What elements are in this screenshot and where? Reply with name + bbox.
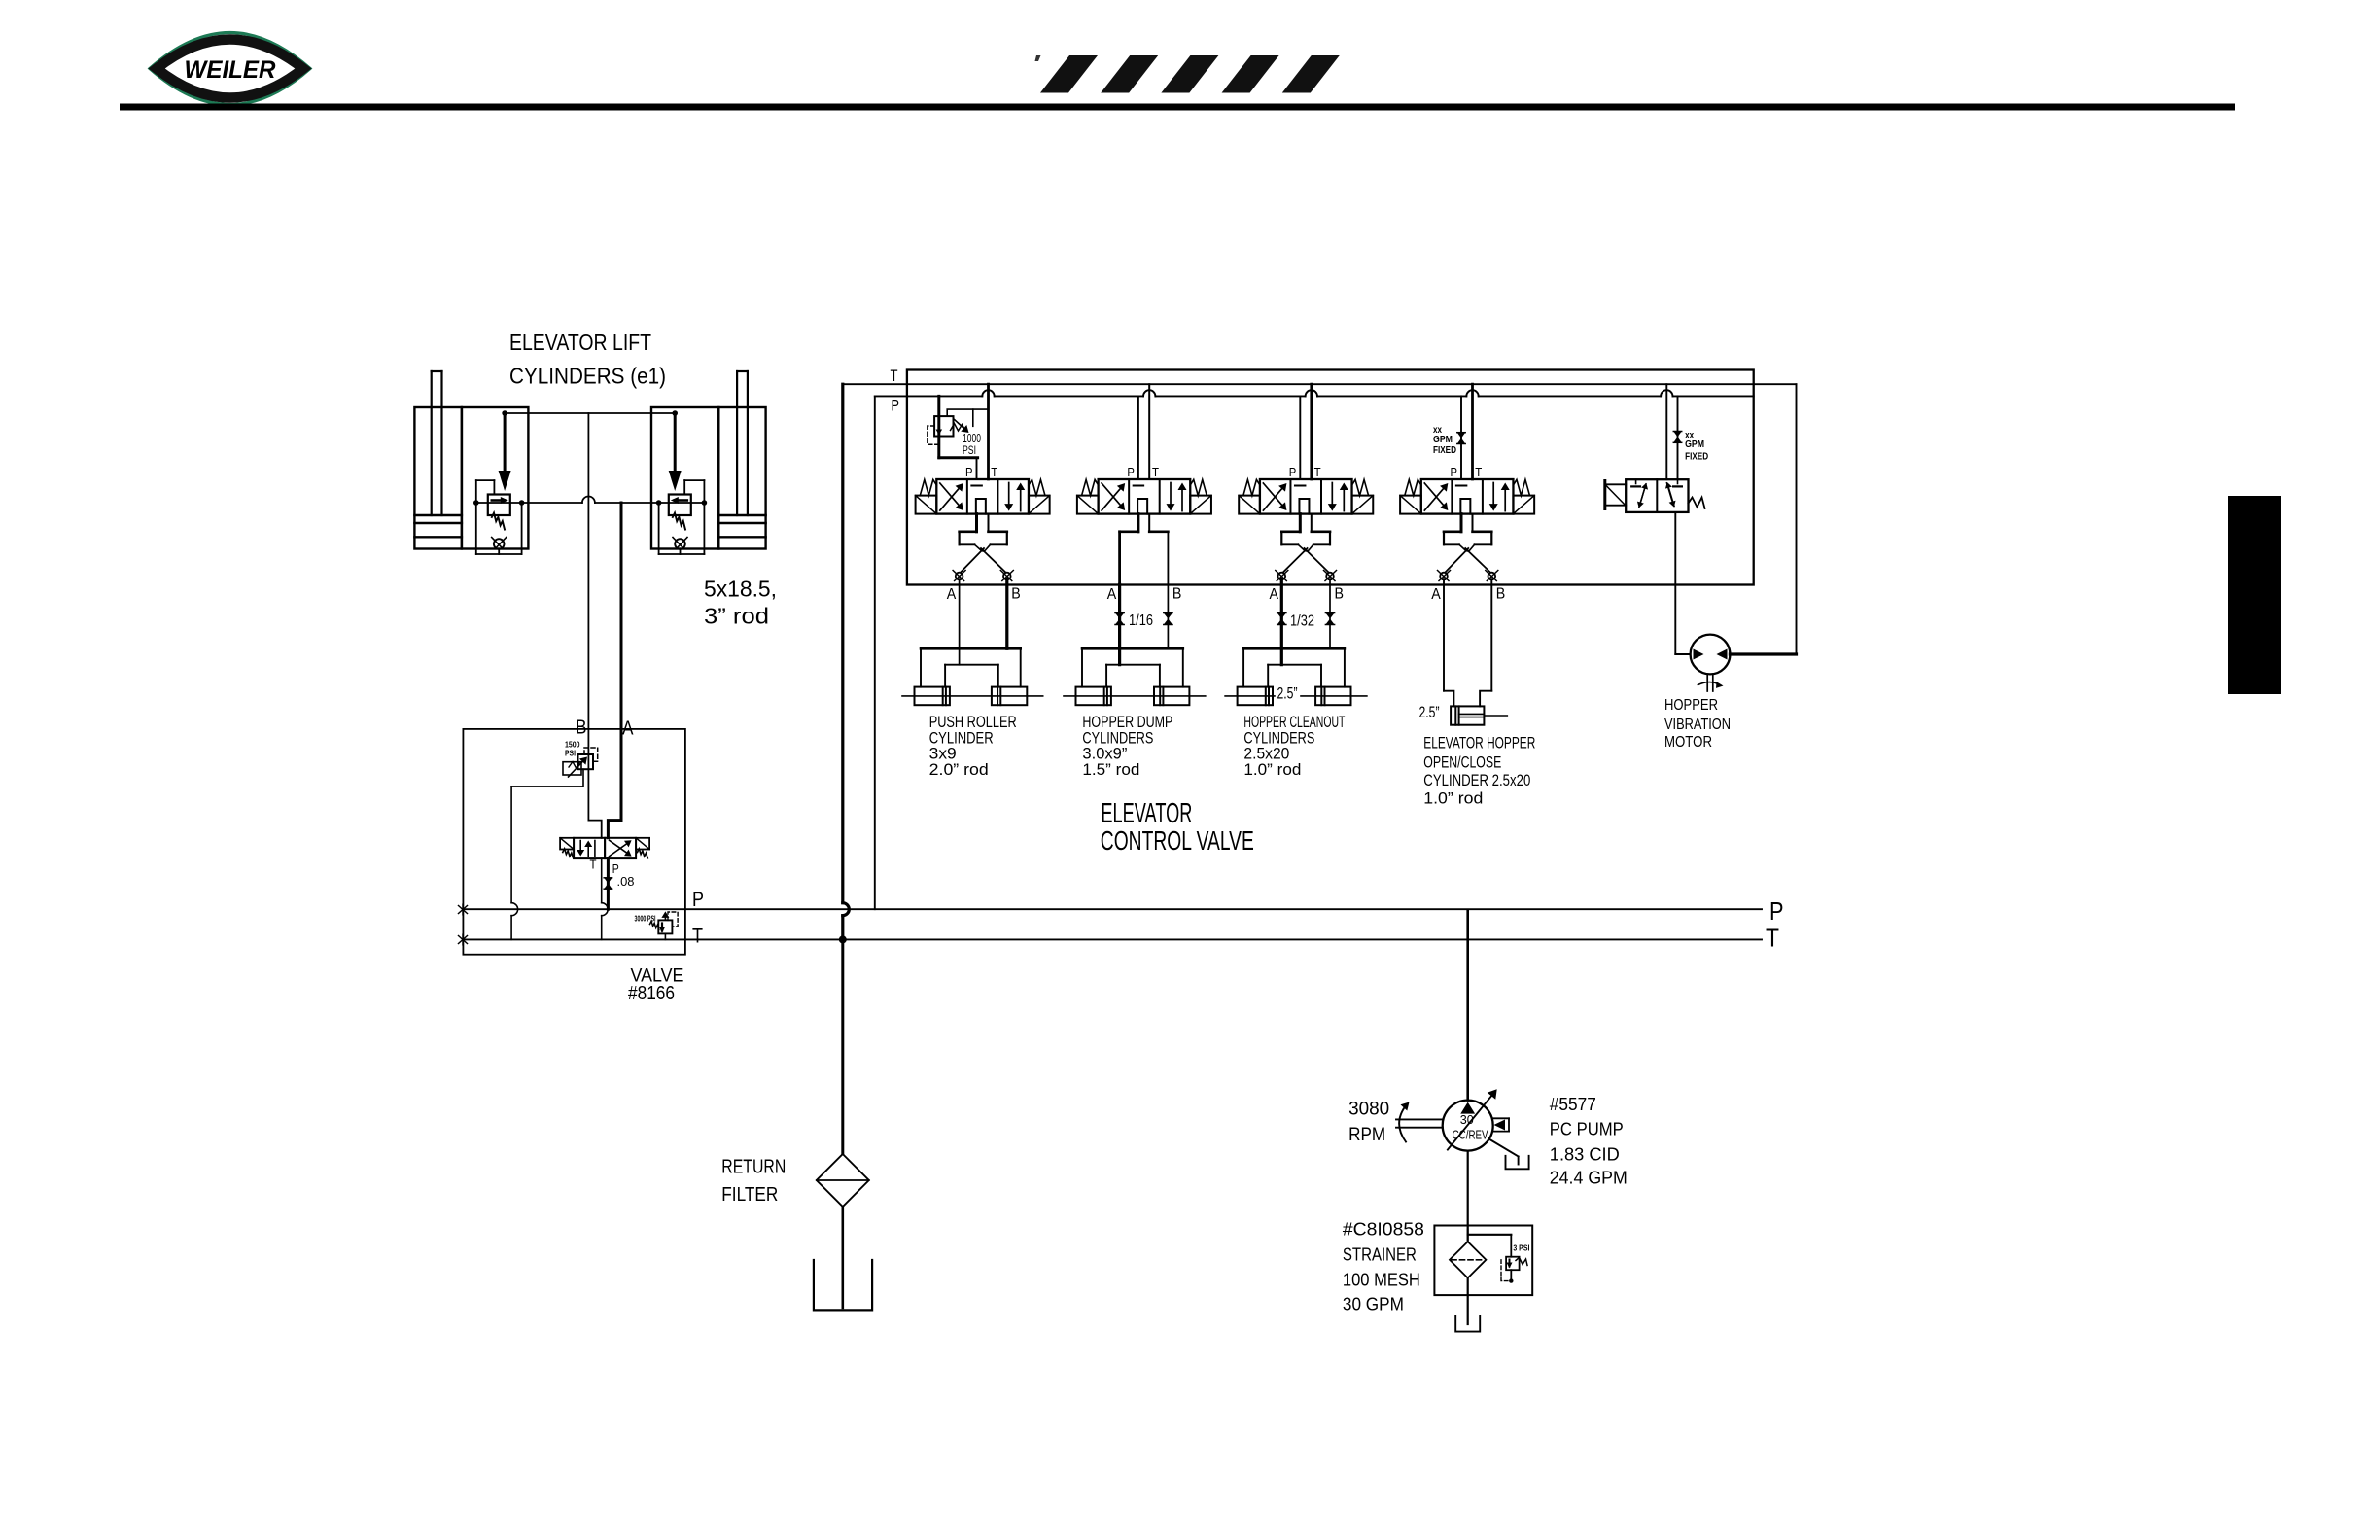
svg-text:1.83 CID: 1.83 CID	[1550, 1144, 1620, 1165]
load check bridge valve 4	[1438, 514, 1498, 581]
svg-text:PUSH ROLLER: PUSH ROLLER	[929, 714, 1017, 731]
load check bridge valve 1	[953, 514, 1013, 581]
relief valve 1500 PSI	[563, 748, 598, 777]
svg-text:2.5”: 2.5”	[1419, 704, 1440, 721]
header hazard stripes	[1035, 55, 1340, 93]
orifice 1/16 label	[1129, 612, 1153, 629]
directional control valve elevator hopper	[1400, 479, 1534, 514]
label return filter	[721, 1156, 786, 1206]
label VALVE	[631, 965, 684, 986]
label hopper vibration motor	[1664, 697, 1731, 751]
svg-text:CYLINDER 2.5x20: CYLINDER 2.5x20	[1423, 771, 1530, 789]
label 1000 PSI	[962, 431, 981, 457]
wire T drop left	[839, 384, 850, 943]
svg-text:1/16: 1/16	[1129, 612, 1153, 629]
svg-text:.08: .08	[617, 874, 635, 889]
label B (valve 1)	[1011, 585, 1021, 602]
load check bridge valve 2	[1120, 514, 1169, 585]
svg-text:B: B	[1172, 585, 1182, 602]
svg-text:2.5”: 2.5”	[1277, 684, 1298, 702]
label B (valve 4)	[1496, 585, 1506, 602]
svg-text:T: T	[692, 926, 703, 948]
label P (valve 2)	[1127, 466, 1135, 479]
svg-text:P: P	[1451, 466, 1458, 479]
svg-text:A: A	[1107, 586, 1117, 603]
directional control valve push roller	[916, 479, 1050, 514]
svg-text:A: A	[622, 717, 634, 740]
svg-text:CYLINDERS (e1): CYLINDERS (e1)	[509, 363, 666, 388]
wire A valve3 to cylinder	[1277, 579, 1286, 664]
svg-text:P: P	[1127, 466, 1135, 479]
wire A valve2 to cylinder	[1115, 584, 1124, 664]
label pump specs	[1550, 1094, 1627, 1188]
label 3000 PSI	[635, 915, 656, 924]
svg-text:PSI: PSI	[565, 749, 576, 758]
svg-text:PSI: PSI	[962, 443, 976, 457]
label A (valve 1)	[947, 586, 957, 603]
label elevator lift cylinders	[509, 330, 666, 389]
label A (valve 4)	[1431, 586, 1441, 603]
wire riser valve5 right with flow control	[1673, 396, 1681, 479]
hopper vibration motor	[1691, 635, 1731, 691]
valve 8166 enclosure box	[463, 729, 685, 955]
svg-text:GPM: GPM	[1685, 438, 1704, 450]
label B (valve 3)	[1335, 585, 1345, 602]
label xx GPM FIXED (valve 4)	[1433, 424, 1456, 456]
svg-text:CONTROL VALVE: CONTROL VALVE	[1101, 825, 1254, 856]
wire trunk A	[620, 503, 623, 821]
svg-text:VIBRATION: VIBRATION	[1664, 717, 1731, 733]
svg-text:3” rod: 3” rod	[704, 604, 769, 629]
svg-text:5x18.5,: 5x18.5,	[704, 577, 777, 602]
label A (valve 2)	[1107, 586, 1117, 603]
label T (valve 4)	[1475, 466, 1482, 479]
load check bridge valve 3	[1276, 514, 1337, 581]
label 5x18.5 3in rod	[704, 577, 777, 629]
wire A valve1 to cylinder	[959, 579, 961, 664]
orifice .08 on P line	[604, 858, 612, 909]
wire P riser valve 2	[1137, 396, 1139, 479]
tank (return)	[814, 1260, 872, 1310]
label P (8166 port)	[612, 862, 619, 876]
wire T return down	[841, 939, 844, 1154]
T bus	[843, 383, 1797, 385]
svg-text:B: B	[1335, 585, 1345, 602]
wire T riser valve 2	[1143, 384, 1155, 479]
label P (bus)	[892, 397, 900, 414]
svg-text:HOPPER: HOPPER	[1664, 697, 1718, 714]
svg-text:OPEN/CLOSE: OPEN/CLOSE	[1423, 752, 1501, 771]
svg-text:3000 PSI: 3000 PSI	[635, 915, 656, 924]
svg-text:1.0” rod: 1.0” rod	[1423, 789, 1483, 808]
svg-text:2.0” rod: 2.0” rod	[929, 761, 989, 779]
label T (rail end)	[1766, 923, 1779, 952]
orifice 1/32 label	[1290, 613, 1314, 630]
label 3080 RPM	[1348, 1099, 1389, 1145]
elevator control valve enclosure	[907, 370, 1754, 585]
svg-text:FIXED: FIXED	[1433, 444, 1456, 456]
svg-text:T: T	[991, 466, 997, 479]
svg-text:24.4 GPM: 24.4 GPM	[1550, 1168, 1627, 1188]
svg-text:T: T	[1152, 466, 1159, 479]
label T (8166 port)	[590, 858, 597, 872]
wire strainer to tank	[1467, 1278, 1469, 1325]
svg-text:P: P	[692, 889, 704, 911]
svg-text:T: T	[891, 367, 898, 385]
P bus	[875, 395, 1754, 397]
Weiler logo	[150, 33, 310, 105]
svg-text:P: P	[1769, 896, 1784, 926]
label 2.5in (hopper oc)	[1419, 704, 1440, 721]
wire valve5 to motor	[1675, 512, 1690, 654]
svg-text:CYLINDER: CYLINDER	[929, 729, 994, 747]
elevator lift cylinder e1 left	[414, 371, 528, 554]
wire P riser valve 4 with flow control	[1457, 396, 1465, 479]
label P (valve 4)	[1451, 466, 1458, 479]
wire filter to tank	[841, 1207, 844, 1308]
svg-text:A: A	[1270, 586, 1279, 603]
svg-text:CC/REV: CC/REV	[1452, 1129, 1489, 1142]
PC pump 5577	[1443, 1089, 1497, 1150]
svg-text:#C8I0858: #C8I0858	[1343, 1219, 1424, 1240]
label 1500 PSI	[565, 739, 580, 757]
wire 8166 T port to T rail	[602, 858, 609, 939]
svg-text:T: T	[1314, 466, 1321, 479]
svg-text:30 GPM: 30 GPM	[1343, 1293, 1404, 1313]
tank (suction)	[1455, 1316, 1480, 1332]
header rule	[120, 104, 2235, 111]
port mark P rail	[459, 904, 468, 915]
svg-text:30: 30	[1460, 1113, 1474, 1127]
push roller cylinder pair	[902, 648, 1043, 705]
relief valve 3000 PSI	[650, 911, 679, 939]
label 3 PSI	[1513, 1242, 1529, 1252]
svg-text:T: T	[590, 858, 597, 872]
label 2.5in (cleanout)	[1277, 684, 1298, 702]
wire B valve2 to cylinder	[1164, 584, 1172, 648]
wire B valve4 to cylinder	[1480, 579, 1491, 706]
svg-text:STRAINER: STRAINER	[1343, 1244, 1417, 1265]
svg-text:B: B	[576, 717, 587, 739]
svg-text:CYLINDERS: CYLINDERS	[1243, 729, 1314, 747]
hopper dump cylinder pair	[1064, 648, 1206, 705]
svg-text:MOTOR: MOTOR	[1664, 734, 1712, 751]
wire P riser valve 3	[1299, 396, 1301, 479]
svg-text:3 PSI: 3 PSI	[1513, 1242, 1529, 1252]
pump compensator port	[1493, 1118, 1509, 1131]
wire B valve3 to cylinder	[1325, 579, 1334, 648]
wire T riser valve 1	[982, 384, 994, 479]
label #8166	[628, 983, 675, 1004]
wire A mid line with bump	[476, 497, 705, 503]
label 30 cc/rev	[1452, 1113, 1489, 1142]
svg-text:FIXED: FIXED	[1685, 450, 1708, 462]
P rail	[463, 908, 1762, 910]
label push roller cylinder	[929, 714, 1017, 779]
svg-text:#5577: #5577	[1550, 1094, 1596, 1114]
solenoid valve hopper vibration	[1605, 479, 1705, 512]
svg-text:WEILER: WEILER	[185, 56, 276, 84]
T rail	[463, 938, 1762, 940]
label T (8166 box edge)	[692, 926, 703, 948]
tank (pump drain)	[1506, 1156, 1529, 1170]
svg-text:A: A	[1431, 586, 1441, 603]
wire P drop left	[874, 396, 876, 909]
wire B valve1 to cylinder	[1005, 579, 1008, 648]
svg-text:3.0x9”: 3.0x9”	[1082, 746, 1127, 763]
svg-text:#8166: #8166	[628, 983, 675, 1004]
strainer C8I0858	[1434, 1226, 1532, 1296]
svg-text:B: B	[1496, 585, 1506, 602]
directional valve 8166 body	[560, 838, 649, 858]
directional control valve hopper dump	[1077, 479, 1211, 514]
label B (valve 2)	[1172, 585, 1182, 602]
svg-text:T: T	[1475, 466, 1482, 479]
svg-text:RETURN: RETURN	[721, 1156, 786, 1177]
enclosure bottom crossing note	[0, 0, 1, 1]
label elevator hopper open/close	[1423, 733, 1535, 807]
directional control valve hopper cleanout	[1239, 479, 1373, 514]
svg-text:2.5x20: 2.5x20	[1243, 746, 1289, 763]
svg-text:1/32: 1/32	[1290, 613, 1314, 630]
svg-text:P: P	[965, 466, 973, 479]
label xx GPM FIXED (valve5)	[1685, 429, 1708, 462]
label hopper cleanout cylinders	[1243, 714, 1345, 779]
label P (8166 box edge)	[692, 889, 704, 911]
label strainer specs	[1343, 1219, 1424, 1314]
svg-text:3080: 3080	[1348, 1099, 1389, 1119]
wire trunk B	[587, 413, 589, 821]
wire A jog	[608, 821, 621, 838]
return filter	[817, 1154, 869, 1207]
label P (rail end)	[1769, 896, 1784, 926]
elevator hopper open/close cylinder	[1451, 706, 1507, 724]
wire pump suction	[1467, 1151, 1469, 1242]
svg-text:RPM: RPM	[1348, 1125, 1385, 1145]
label P (valve 3)	[1289, 466, 1297, 479]
label T (valve 2)	[1152, 466, 1159, 479]
label elevator control valve title	[1101, 798, 1254, 856]
wire riser valve5 left	[1661, 384, 1672, 479]
svg-text:ELEVATOR HOPPER: ELEVATOR HOPPER	[1423, 733, 1535, 752]
svg-text:100 MESH: 100 MESH	[1343, 1269, 1420, 1289]
label P (valve 1)	[965, 466, 973, 479]
wire relief 1500 drain	[511, 769, 583, 939]
svg-text:PC PUMP: PC PUMP	[1550, 1119, 1624, 1139]
wire P riser valve 1	[976, 458, 978, 479]
svg-text:A: A	[947, 586, 957, 603]
wire T riser valve 3	[1306, 384, 1317, 479]
pump case drain	[1489, 1139, 1519, 1165]
wire A valve4 to cylinder	[1444, 579, 1453, 706]
wire T riser valve 4	[1466, 384, 1478, 479]
label T (valve 3)	[1314, 466, 1321, 479]
label .08	[617, 874, 635, 889]
label T (bus)	[891, 367, 898, 385]
svg-text:P: P	[1289, 466, 1297, 479]
svg-text:HOPPER CLEANOUT: HOPPER CLEANOUT	[1243, 714, 1345, 731]
wire B header (cyl tops)	[502, 410, 678, 416]
port mark T rail	[459, 934, 468, 945]
svg-text:HOPPER DUMP: HOPPER DUMP	[1082, 714, 1172, 731]
pump drive shaft	[1396, 1102, 1443, 1142]
label B (8166)	[576, 717, 587, 739]
svg-text:1.0” rod: 1.0” rod	[1243, 761, 1301, 779]
svg-text:1.5” rod: 1.5” rod	[1082, 761, 1139, 779]
relief valve 1000 PSI	[927, 396, 989, 457]
label T (valve 1)	[991, 466, 997, 479]
wire B jog	[588, 821, 601, 838]
svg-text:CYLINDERS: CYLINDERS	[1082, 729, 1153, 747]
page edge tab	[2228, 496, 2281, 694]
wire pump to P rail	[1466, 910, 1469, 1100]
svg-text:P: P	[892, 397, 900, 414]
label A (8166)	[622, 717, 634, 740]
wire motor to T bus	[1730, 384, 1796, 654]
svg-text:3x9: 3x9	[929, 746, 957, 763]
elevator lift cylinder e1 right	[651, 371, 766, 554]
svg-text:T: T	[1766, 923, 1779, 952]
svg-text:ELEVATOR LIFT: ELEVATOR LIFT	[509, 330, 651, 355]
hopper cleanout cylinder pair	[1225, 648, 1367, 705]
label A (valve 3)	[1270, 586, 1279, 603]
svg-text:FILTER: FILTER	[721, 1184, 778, 1206]
svg-text:B: B	[1011, 585, 1021, 602]
label hopper dump cylinders	[1082, 714, 1172, 779]
